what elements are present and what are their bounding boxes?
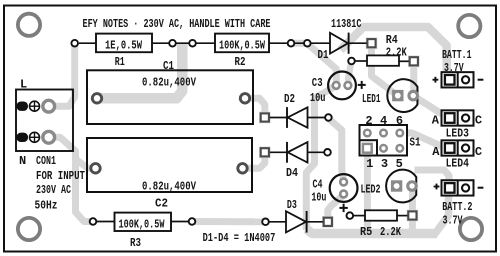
svg-text:10u: 10u <box>311 191 326 205</box>
svg-text:L: L <box>20 78 27 92</box>
svg-text:3: 3 <box>381 157 388 171</box>
svg-text:D4: D4 <box>286 166 298 180</box>
svg-text:2: 2 <box>365 114 372 128</box>
svg-text:D1: D1 <box>318 48 329 62</box>
svg-text:LED4: LED4 <box>446 156 469 170</box>
svg-text:C3: C3 <box>312 76 323 90</box>
svg-text:EFY NOTES · 230V AC, HANDLE WI: EFY NOTES · 230V AC, HANDLE WITH CARE <box>83 17 271 31</box>
svg-text:R5: R5 <box>360 225 372 239</box>
svg-text:C1: C1 <box>163 59 174 73</box>
svg-text:R3: R3 <box>130 236 141 250</box>
svg-text:100K,0.5W: 100K,0.5W <box>119 217 166 231</box>
svg-text:R2: R2 <box>235 55 246 69</box>
svg-text:50Hz: 50Hz <box>35 199 58 213</box>
svg-text:R1: R1 <box>115 55 125 69</box>
svg-text:D3: D3 <box>287 198 297 212</box>
svg-text:1: 1 <box>366 157 373 171</box>
svg-text:2.2K: 2.2K <box>386 46 408 60</box>
svg-text:S1: S1 <box>410 135 421 149</box>
svg-text:BATT.2: BATT.2 <box>442 200 472 214</box>
svg-text:1E,0.5W: 1E,0.5W <box>105 39 143 53</box>
svg-text:6: 6 <box>396 114 403 128</box>
svg-text:5: 5 <box>396 157 403 171</box>
svg-text:C2: C2 <box>155 197 168 211</box>
svg-text:A: A <box>432 145 440 159</box>
svg-text:FOR INPUT: FOR INPUT <box>36 169 85 183</box>
svg-text:LED3: LED3 <box>446 126 469 140</box>
svg-text:0.82u,400V: 0.82u,400V <box>142 180 197 194</box>
svg-text:C: C <box>475 114 482 128</box>
svg-text:3.7V: 3.7V <box>444 61 464 75</box>
svg-text:11381C: 11381C <box>331 17 361 31</box>
svg-text:D1-D4 = 1N4007: D1-D4 = 1N4007 <box>203 231 276 245</box>
svg-text:CON1: CON1 <box>36 154 56 168</box>
svg-text:2.2K: 2.2K <box>380 225 402 239</box>
svg-text:4: 4 <box>380 114 387 128</box>
svg-text:3.7V: 3.7V <box>443 214 464 228</box>
svg-text:230V AC: 230V AC <box>36 183 71 197</box>
svg-text:C: C <box>475 145 482 159</box>
svg-text:10u: 10u <box>310 91 326 105</box>
svg-text:100K,0.5W: 100K,0.5W <box>219 39 266 53</box>
svg-text:BATT.1: BATT.1 <box>442 48 472 62</box>
svg-text:D2: D2 <box>284 92 295 106</box>
svg-text:A: A <box>432 114 440 128</box>
svg-text:C4: C4 <box>313 177 323 191</box>
svg-text:N: N <box>19 154 26 168</box>
svg-text:0.82u,400V: 0.82u,400V <box>142 76 197 90</box>
svg-text:LED2: LED2 <box>361 183 381 197</box>
svg-text:LED1: LED1 <box>362 92 381 106</box>
